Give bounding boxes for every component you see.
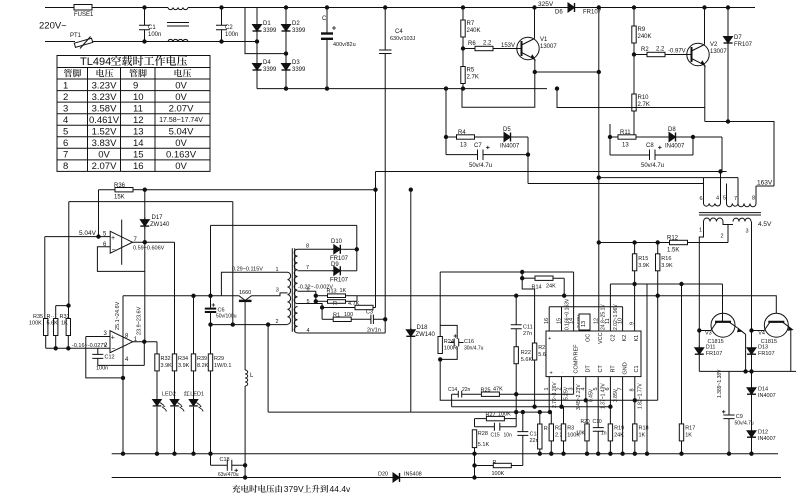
node bridge right mid xyxy=(284,52,287,55)
svg-text:C3: C3 xyxy=(366,310,373,316)
capacitor C11 27n xyxy=(511,296,522,329)
wire bus y202 xyxy=(69,201,233,203)
svg-text:11: 11 xyxy=(133,103,143,114)
diode D13 FR107 xyxy=(751,331,753,347)
wire bus y295.7 left xyxy=(123,295,239,297)
svg-text:D4: D4 xyxy=(263,60,271,66)
svg-text:14: 14 xyxy=(133,138,144,149)
svg-text:R9: R9 xyxy=(638,27,646,33)
svg-text:5: 5 xyxy=(593,387,599,390)
svg-text:IN5408: IN5408 xyxy=(404,472,422,478)
svg-text:+: + xyxy=(548,336,551,342)
svg-text:5.6K: 5.6K xyxy=(47,321,59,327)
svg-text:3.9K: 3.9K xyxy=(161,363,173,369)
svg-text:C14: C14 xyxy=(448,387,457,393)
svg-text:D6: D6 xyxy=(555,10,563,16)
svg-text:D3: D3 xyxy=(292,60,300,66)
IC pin 4 stub xyxy=(585,377,587,401)
node AC bottom at C2 xyxy=(220,40,223,43)
svg-text:R16: R16 xyxy=(661,256,671,262)
svg-text:1K: 1K xyxy=(639,433,646,439)
LED 3 (红LED1) xyxy=(189,400,198,406)
svg-text:1: 1 xyxy=(276,267,279,273)
wire bottom bus y477.5 xyxy=(112,477,393,479)
diode D4 3399 xyxy=(253,62,262,73)
wire AC line 1 (top) xyxy=(45,7,568,9)
svg-text:3.23V: 3.23V xyxy=(92,92,117,103)
wire V1 emitter return box xyxy=(462,72,535,107)
diode D2 3399 xyxy=(282,23,291,34)
wire bus y412 xyxy=(268,411,551,413)
box R24/C16 loop xyxy=(440,325,457,359)
svg-text:ZW140: ZW140 xyxy=(150,222,170,228)
svg-text:10n: 10n xyxy=(504,433,513,439)
svg-text:−: − xyxy=(111,346,115,353)
wire C6 bottom xyxy=(210,313,212,354)
wire pin5 drop xyxy=(298,304,323,320)
svg-text:0.461V: 0.461V xyxy=(89,115,120,126)
svg-text:FR107: FR107 xyxy=(758,351,775,357)
op-amp U1 xyxy=(110,231,132,253)
wire snubber left drop xyxy=(445,89,447,137)
capacitor C13 22n xyxy=(511,412,528,465)
wire R24 col to y400 line xyxy=(440,359,658,400)
transformer T1 secondary lower winding xyxy=(294,307,297,333)
svg-text:1.52V: 1.52V xyxy=(92,127,117,138)
node C bottom xyxy=(325,87,328,90)
svg-text:5.04V: 5.04V xyxy=(169,127,194,138)
wire V3 emitter drop xyxy=(741,330,746,371)
svg-text:15K: 15K xyxy=(114,195,125,201)
svg-text:R: R xyxy=(493,460,497,466)
table header xyxy=(64,69,191,77)
capacitor C10 1n xyxy=(593,407,604,454)
svg-text:D10: D10 xyxy=(331,239,343,245)
resistor R6 2.2 xyxy=(463,48,475,50)
wire T1 pin1 box xyxy=(221,272,287,296)
svg-text:COMP/REF: COMP/REF xyxy=(574,344,580,374)
node bridge right top xyxy=(284,6,287,9)
wire inverting node line xyxy=(46,336,69,349)
svg-text:C10: C10 xyxy=(593,419,602,425)
svg-text:C: C xyxy=(322,16,327,22)
capacitor C 400v/82u xyxy=(326,8,328,89)
svg-text:13: 13 xyxy=(133,127,144,138)
wire bus y171.5 xyxy=(376,171,727,173)
IC pin 6 stub xyxy=(609,377,611,424)
node R7/R6/R5 xyxy=(461,47,464,50)
wire snubber right drop xyxy=(609,124,611,155)
transformer T2 primary winding B xyxy=(727,204,739,207)
diode D11 FR107 xyxy=(698,331,700,347)
capacitor C1 100n xyxy=(139,8,150,42)
svg-text:3: 3 xyxy=(63,103,68,114)
resistor R1 100 xyxy=(322,318,333,320)
wire R36 left drop xyxy=(98,190,100,237)
transformer T2 primary winding C xyxy=(738,204,756,207)
svg-text:R12: R12 xyxy=(667,236,679,242)
IC pin 5 stub xyxy=(597,377,599,407)
resistor R35 100K xyxy=(44,237,46,319)
svg-text:PT1: PT1 xyxy=(70,33,82,39)
wire op1 pin6 feedback xyxy=(97,247,144,272)
wire R36 line to x376 xyxy=(145,189,376,191)
diode D14 IN4007 xyxy=(747,386,756,397)
svg-text:240K: 240K xyxy=(467,28,481,34)
svg-text:R7: R7 xyxy=(467,21,475,27)
wire V1 emitter xyxy=(534,60,536,72)
wire D9 to x356.8 xyxy=(343,270,357,272)
fuse FUSE1 xyxy=(74,5,92,11)
resistor R28 5.1K xyxy=(472,430,476,448)
transformer T1 secondary upper winding xyxy=(294,249,297,303)
wire x647 drop xyxy=(646,284,648,454)
wire LED2 column xyxy=(174,371,176,454)
resistor R27 100K xyxy=(475,418,487,420)
svg-text:0V: 0V xyxy=(175,80,187,91)
svg-text:+: + xyxy=(111,335,115,342)
svg-text:R6: R6 xyxy=(468,41,476,47)
node R36 right xyxy=(143,188,146,191)
wire R12 line xyxy=(599,242,670,244)
svg-text:10: 10 xyxy=(133,92,144,103)
svg-text:8: 8 xyxy=(306,244,309,250)
svg-text:+: + xyxy=(550,371,553,377)
inductor L xyxy=(245,370,248,386)
IC pin 14 stub xyxy=(573,272,575,331)
svg-text:1: 1 xyxy=(699,228,702,234)
wire R32 top xyxy=(156,342,158,354)
svg-text:R19: R19 xyxy=(614,426,624,432)
wire R left column xyxy=(474,454,476,478)
wire D5 to 183.5 bus xyxy=(527,137,529,184)
node R4 left xyxy=(444,135,447,138)
resistor R 100K xyxy=(493,463,511,467)
capacitor C4 630v/103J xyxy=(379,8,392,334)
svg-text:4.5V: 4.5V xyxy=(758,221,772,228)
svg-text:50v/100u: 50v/100u xyxy=(216,314,237,320)
wire T2 pin1 down xyxy=(699,222,703,331)
svg-text:2.2: 2.2 xyxy=(483,41,492,47)
svg-text:3399: 3399 xyxy=(263,28,277,34)
svg-text:5.6K: 5.6K xyxy=(521,357,533,363)
svg-text:7: 7 xyxy=(734,196,737,202)
svg-text:2.07V: 2.07V xyxy=(169,103,194,114)
svg-text:8: 8 xyxy=(752,196,755,202)
svg-text:30n/4.7u: 30n/4.7u xyxy=(464,346,484,352)
svg-text:47K: 47K xyxy=(493,387,503,393)
wire D8 node down xyxy=(692,137,694,155)
wire VCC rail x598.8 xyxy=(598,8,600,332)
wire 1660 collector drop xyxy=(244,302,246,370)
resistor R20 10K xyxy=(586,400,588,424)
wire C6 to x232.8 xyxy=(211,324,269,326)
transistor V4 C1815 xyxy=(764,313,788,337)
svg-text:C2: C2 xyxy=(611,334,617,341)
svg-text:R1: R1 xyxy=(333,313,340,319)
capacitor C16 30n/4.7u xyxy=(450,339,464,347)
resistor R14 24K xyxy=(522,277,535,279)
svg-text:C1: C1 xyxy=(148,25,156,31)
wire op2 output xyxy=(133,341,157,343)
resistor R18 1K xyxy=(634,400,636,424)
IC pin 3 stub xyxy=(573,377,575,395)
resistor R26 2.2K xyxy=(550,412,552,424)
wire D8 to T2 xyxy=(693,137,722,172)
svg-text:5.04V: 5.04V xyxy=(79,230,97,237)
svg-text:325V: 325V xyxy=(538,1,554,8)
svg-text:16: 16 xyxy=(544,318,550,324)
svg-text:FR107: FR107 xyxy=(706,351,723,357)
wire R13 right link xyxy=(356,296,358,302)
svg-text:K1: K1 xyxy=(634,335,640,342)
transistor V2 13007 xyxy=(687,43,709,65)
svg-text:6: 6 xyxy=(63,138,68,149)
diode D12 IN4007 xyxy=(747,429,756,440)
diode D17 ZW140 xyxy=(144,190,146,220)
resistor R19 24K xyxy=(608,424,612,441)
svg-text:13: 13 xyxy=(581,321,587,327)
svg-text:CT: CT xyxy=(598,365,604,373)
svg-text:V4: V4 xyxy=(758,331,765,337)
svg-text:10: 10 xyxy=(617,318,623,324)
svg-text:23.9~23.6V: 23.9~23.6V xyxy=(137,306,143,335)
wire y284 line xyxy=(610,283,722,285)
svg-text:220V~: 220V~ xyxy=(39,21,67,32)
svg-text:3: 3 xyxy=(276,288,279,294)
resistor R2 2.2 xyxy=(634,54,647,56)
svg-text:R5: R5 xyxy=(467,68,475,74)
svg-text:3.9K: 3.9K xyxy=(178,363,190,369)
svg-text:24.8~25.1V: 24.8~25.1V xyxy=(601,304,607,330)
svg-text:1W/0.1: 1W/0.1 xyxy=(214,363,231,369)
svg-text:100K: 100K xyxy=(29,321,42,327)
svg-text:9: 9 xyxy=(133,80,138,91)
svg-text:D14: D14 xyxy=(758,387,768,393)
svg-text:D18: D18 xyxy=(417,325,429,331)
svg-text:D17: D17 xyxy=(152,215,164,221)
svg-text:630v/103J: 630v/103J xyxy=(390,36,416,42)
wire R29 column bottom xyxy=(210,371,212,454)
wire bus y295.7 mid xyxy=(357,295,658,297)
svg-text:24K: 24K xyxy=(546,284,556,290)
svg-text:1.82~1.77V: 1.82~1.77V xyxy=(637,383,643,409)
node AC bottom at C1 xyxy=(143,40,146,43)
wire V1 emitter to rail xyxy=(535,71,599,73)
svg-text:14: 14 xyxy=(568,318,574,324)
svg-text:FR107: FR107 xyxy=(330,278,349,284)
resistor R9 240K xyxy=(633,8,635,27)
svg-text:4: 4 xyxy=(63,115,68,126)
node C4 top xyxy=(384,6,387,9)
capacitor C3 2n/1n xyxy=(371,315,385,324)
resistor R17 1K xyxy=(679,424,683,441)
svg-text:C18: C18 xyxy=(220,457,230,463)
svg-text:27n: 27n xyxy=(523,331,532,337)
svg-text:R3: R3 xyxy=(567,426,574,432)
resistor R29 1W/0.1 xyxy=(208,354,212,371)
wire bridge right column xyxy=(285,8,287,89)
svg-text:C8: C8 xyxy=(646,143,654,149)
wire op2 pin3 box xyxy=(86,337,123,378)
svg-text:FR107: FR107 xyxy=(734,42,753,48)
LED 2 xyxy=(170,400,179,406)
resistor R24 100R xyxy=(438,337,442,354)
svg-text:100K: 100K xyxy=(492,471,505,477)
wire C18 to bottom bus xyxy=(244,465,246,477)
svg-text:3399: 3399 xyxy=(263,67,277,73)
svg-text:R17: R17 xyxy=(685,426,695,432)
IC pin 10 stub xyxy=(622,307,624,331)
svg-text:3.9K: 3.9K xyxy=(638,263,650,269)
wire pin6 drop xyxy=(298,291,316,301)
svg-text:R39: R39 xyxy=(197,356,207,362)
wire op1 pin5 line xyxy=(45,236,110,238)
svg-text:R···: R··· xyxy=(333,301,343,307)
wire bus y202 left drop xyxy=(68,202,70,306)
transformer T2 core xyxy=(699,213,761,215)
wire op1 output down to R34 xyxy=(174,242,176,353)
svg-text:0.59~0.606V: 0.59~0.606V xyxy=(133,246,165,252)
diode D3 3399 xyxy=(282,62,291,73)
wire y371.4 line xyxy=(699,370,796,372)
wire bus y177.6 xyxy=(598,177,739,179)
svg-text:22n: 22n xyxy=(462,387,471,393)
svg-text:R2: R2 xyxy=(641,47,649,53)
wire L bottom xyxy=(244,386,246,465)
IC pin 13 box xyxy=(579,314,590,330)
resistor R31 1K xyxy=(68,306,70,319)
svg-text:5: 5 xyxy=(63,127,68,138)
resistor R11 13 xyxy=(610,136,618,138)
svg-text:240K: 240K xyxy=(638,34,652,40)
node R9/R2/R10 xyxy=(632,53,635,56)
svg-text:IN4007: IN4007 xyxy=(758,436,776,442)
capacitor C14 22n xyxy=(452,391,482,398)
transformer T2 secondary winding right xyxy=(733,218,751,221)
svg-text:R13: R13 xyxy=(327,289,337,295)
table TL494 voltages frame xyxy=(57,56,210,172)
svg-text:1.5K: 1.5K xyxy=(667,248,679,254)
svg-text:R32: R32 xyxy=(161,356,171,362)
svg-text:V3: V3 xyxy=(705,331,712,337)
capacitor C12 100n xyxy=(92,348,103,365)
diode D7 FR107 xyxy=(727,8,729,36)
svg-text:2.7K: 2.7K xyxy=(467,75,479,81)
wire negative bus xyxy=(257,88,547,90)
svg-text:D1: D1 xyxy=(263,21,271,27)
svg-text:R4: R4 xyxy=(458,130,466,136)
svg-text:50v/4.7u: 50v/4.7u xyxy=(469,163,492,169)
wire op2 pin3 line xyxy=(86,336,110,338)
svg-text:0V: 0V xyxy=(98,150,110,161)
resistor R36 15K xyxy=(99,189,116,191)
svg-text:C4: C4 xyxy=(395,29,403,35)
svg-text:R28: R28 xyxy=(478,431,488,437)
IC pin 16 stub xyxy=(548,307,550,331)
svg-text:1: 1 xyxy=(63,80,68,91)
svg-text:100: 100 xyxy=(344,312,353,318)
wire V1 collector xyxy=(534,8,536,39)
svg-text:3399: 3399 xyxy=(292,28,306,34)
svg-text:17.58~17.74V: 17.58~17.74V xyxy=(159,117,203,124)
svg-text:7: 7 xyxy=(63,150,68,161)
IC pin 1 stub xyxy=(548,377,550,413)
node C top xyxy=(325,6,328,9)
svg-text:5.1K: 5.1K xyxy=(478,442,490,448)
resistor R3 100K xyxy=(563,407,565,424)
wire aux rail loop xyxy=(211,225,357,295)
svg-text:24K: 24K xyxy=(614,433,624,439)
svg-text:R10: R10 xyxy=(638,95,650,101)
wire y406.7 line xyxy=(452,406,611,408)
transistor V3 C1815 xyxy=(711,313,735,337)
transformer CM choke xyxy=(168,8,188,10)
svg-text:R34: R34 xyxy=(178,356,188,362)
wire V4 base line xyxy=(658,296,777,314)
resistor R16 3.9K xyxy=(657,243,659,254)
svg-text:R14: R14 xyxy=(532,285,542,291)
wire V2 emitter xyxy=(704,66,706,122)
diode D5 IN4007 xyxy=(502,133,513,142)
transformer T2 primary winding A xyxy=(704,204,721,207)
svg-text:10K: 10K xyxy=(576,431,586,437)
capacitor C9 50v/4.7u xyxy=(723,371,734,453)
svg-text:0.163V: 0.163V xyxy=(166,150,197,161)
svg-text:LED1: LED1 xyxy=(190,392,204,398)
diode D9 FR107 xyxy=(332,266,343,275)
svg-text:1: 1 xyxy=(544,387,550,390)
transformer T2 secondary winding left xyxy=(704,218,724,221)
svg-text:DT: DT xyxy=(586,365,592,373)
svg-text:3399: 3399 xyxy=(292,67,306,73)
wire pin4 lead xyxy=(298,332,386,334)
svg-text:IN4007: IN4007 xyxy=(500,144,520,150)
IC pin 2 stub xyxy=(561,377,563,407)
svg-text:R··: R·· xyxy=(47,314,55,320)
svg-text:VCC: VCC xyxy=(598,332,604,344)
svg-text:TL494: TL494 xyxy=(80,56,111,68)
wire R39 column xyxy=(193,296,195,354)
svg-text:C12: C12 xyxy=(105,355,115,361)
svg-text:13: 13 xyxy=(460,143,467,149)
wire D10 to x356.8 xyxy=(343,248,357,250)
svg-text:C1: C1 xyxy=(634,365,640,372)
svg-text:13007: 13007 xyxy=(710,49,727,55)
svg-text:11: 11 xyxy=(605,318,611,324)
wire R24 column xyxy=(439,272,441,337)
svg-text:2.76~3.26V: 2.76~3.26V xyxy=(552,382,558,408)
wire bus y186 xyxy=(756,185,774,187)
transformer T1 core xyxy=(292,248,294,332)
wire AC line 1 right of D6 xyxy=(577,7,755,9)
svg-text:153V: 153V xyxy=(501,43,515,49)
svg-text:2: 2 xyxy=(556,387,562,390)
svg-text:3.58V: 3.58V xyxy=(92,103,117,114)
resistor R39 8.2K xyxy=(191,354,195,371)
resistor R15 3.9K xyxy=(634,243,636,254)
resistor R** 5.6K xyxy=(56,306,69,319)
svg-text:R27: R27 xyxy=(486,412,496,418)
svg-text:12: 12 xyxy=(594,318,600,324)
svg-text:379V: 379V xyxy=(284,484,304,494)
wire bottom bus right xyxy=(402,477,781,479)
wire T2 pin3 down xyxy=(751,222,753,331)
node AC top at C1 xyxy=(143,6,146,9)
svg-text:5: 5 xyxy=(723,196,726,202)
wire x268.1 drop to y412 xyxy=(267,325,269,413)
svg-text:15: 15 xyxy=(556,318,562,324)
